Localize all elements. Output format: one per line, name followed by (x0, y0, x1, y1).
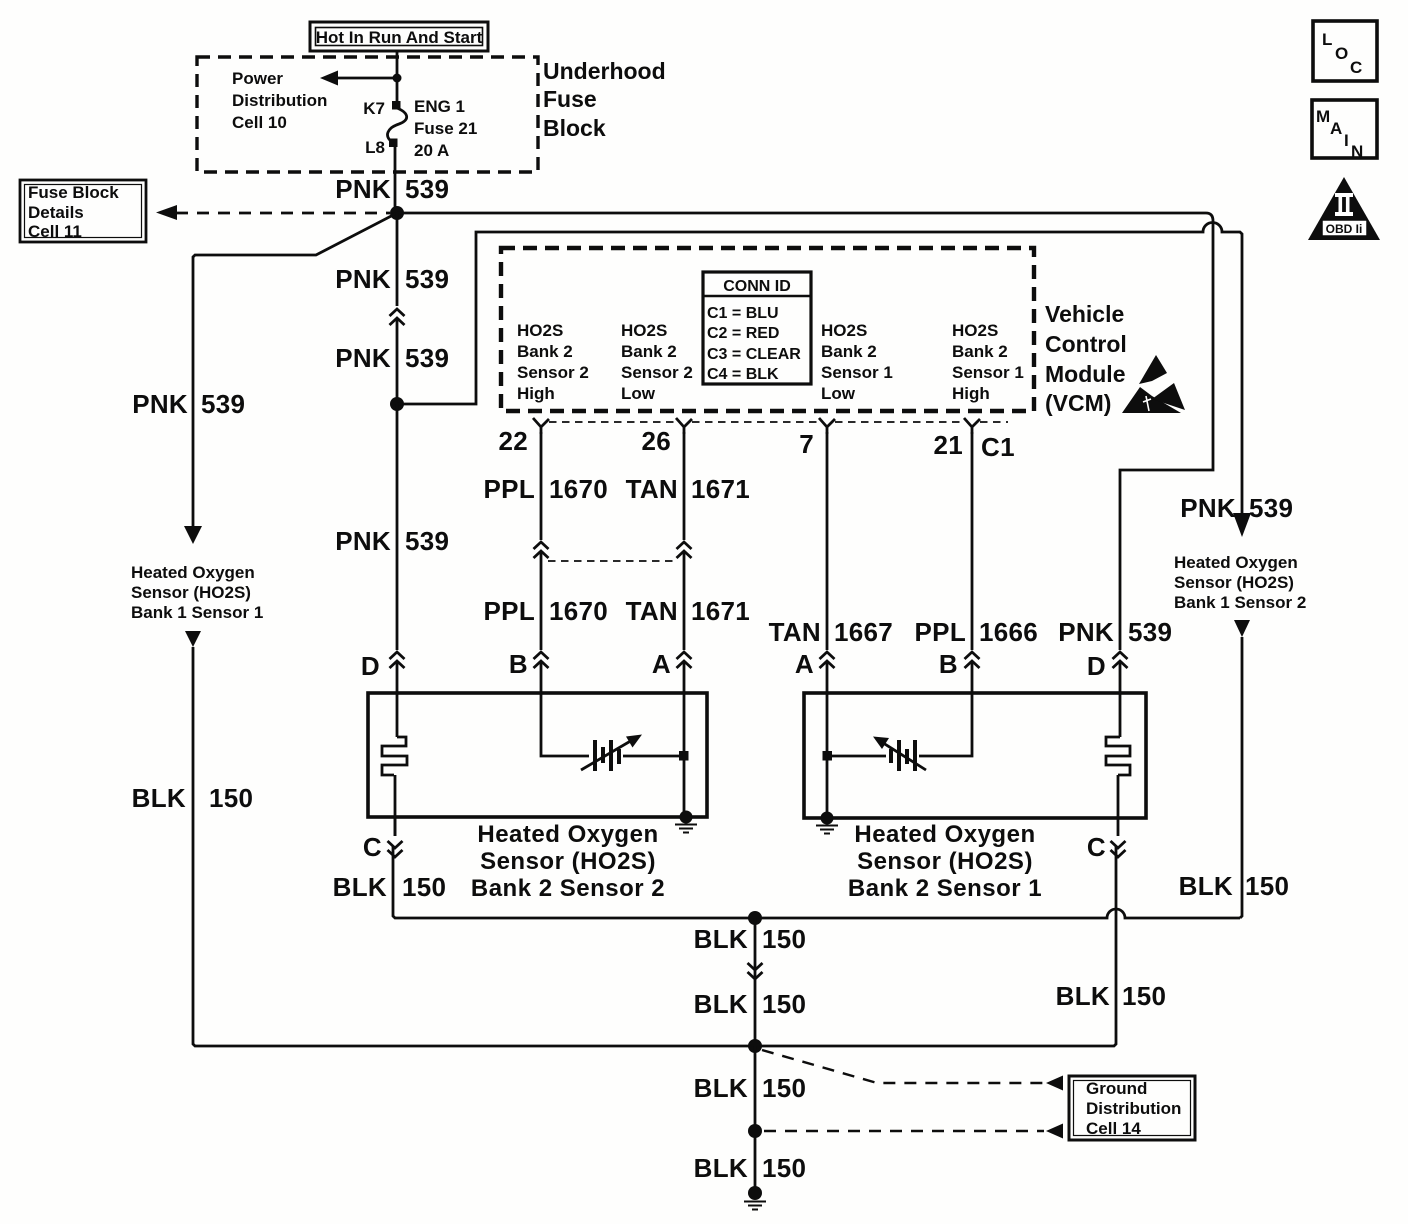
hot in run and start box (310, 22, 488, 51)
BLK 150 label right (1179, 871, 1290, 901)
power distribution cell 10 label (232, 69, 327, 132)
svg-text:Details: Details (28, 203, 84, 222)
svg-text:7: 7 (799, 429, 814, 459)
wire pin22 down (540, 432, 543, 540)
center ground wire with chevrons (754, 918, 757, 1046)
center wire to ground (754, 1046, 757, 1193)
wire from hot box into fuse block (396, 51, 399, 101)
main PNK wire continues down to sensor (396, 404, 399, 650)
svg-text:20 A: 20 A (414, 141, 449, 160)
fuse block details box (20, 180, 146, 242)
svg-text:HO2S: HO2S (821, 321, 867, 340)
left sensing element plates (595, 740, 619, 771)
svg-text:BLK: BLK (1056, 981, 1110, 1011)
svg-text:1670: 1670 (549, 596, 608, 626)
svg-text:26: 26 (641, 426, 671, 456)
left box caption (471, 821, 665, 902)
svg-text:Fuse Block: Fuse Block (28, 183, 119, 202)
svg-text:Low: Low (621, 384, 656, 403)
svg-text:BLK: BLK (132, 783, 186, 813)
svg-text:C: C (1087, 832, 1106, 862)
dashed ref diagonal to ground distribution (762, 1050, 1044, 1083)
svg-text:A: A (795, 649, 814, 679)
OBD II symbol (1308, 177, 1380, 240)
svg-text:Cell 14: Cell 14 (1086, 1119, 1141, 1138)
wire pin7 down (826, 432, 829, 650)
right heater element (1106, 693, 1130, 836)
wire pin21 down (971, 432, 974, 650)
svg-text:PPL: PPL (915, 617, 966, 647)
svg-text:PNK: PNK (335, 264, 391, 294)
svg-text:Sensor (HO2S): Sensor (HO2S) (480, 848, 656, 875)
wire: line B to VCM right side (397, 223, 1242, 515)
svg-text:M: M (1316, 107, 1330, 126)
main junction dot under fuse (390, 206, 404, 220)
svg-text:Bank 2 Sensor 1: Bank 2 Sensor 1 (848, 875, 1042, 902)
bottom ground symbol (744, 1186, 766, 1210)
fuse curve (388, 108, 407, 142)
svg-text:Underhood: Underhood (543, 58, 666, 84)
pin 22 Y connector (533, 418, 549, 434)
right sensing element wires (827, 693, 972, 756)
C wire down to bus with hop over right C wire (393, 846, 1240, 918)
svg-text:Bank 2: Bank 2 (517, 342, 573, 361)
junction for second dashed ref (748, 1124, 762, 1138)
svg-text:150: 150 (762, 924, 806, 954)
svg-text:PNK: PNK (1058, 617, 1114, 647)
svg-text:High: High (517, 384, 555, 403)
LOC symbol box (1313, 21, 1377, 81)
BLK 150 label under left sensor (333, 872, 447, 902)
HO2S bank2 sensor2 low label (621, 321, 693, 403)
left heater element (382, 693, 407, 836)
svg-text:Sensor 1: Sensor 1 (952, 363, 1024, 382)
A wire to ground in right box (826, 693, 829, 818)
right element junction square (823, 751, 833, 761)
svg-text:1671: 1671 (691, 474, 750, 504)
svg-text:C3 = CLEAR: C3 = CLEAR (707, 346, 801, 363)
svg-text:Heated Oxygen: Heated Oxygen (1174, 553, 1298, 572)
PNK 539 label (335, 264, 449, 294)
svg-text:150: 150 (762, 989, 806, 1019)
PNK539 arrowhead down right (1233, 513, 1251, 537)
right box ground (816, 812, 838, 834)
svg-text:BLK: BLK (1179, 871, 1233, 901)
svg-text:Cell 11: Cell 11 (28, 222, 82, 241)
wire: diagonal branch to left (193, 213, 397, 527)
svg-text:C1: C1 (981, 432, 1015, 462)
svg-text:539: 539 (405, 264, 449, 294)
svg-text:539: 539 (405, 526, 449, 556)
heated oxygen sensor bank1 sensor2 label (1174, 553, 1306, 612)
connector face fine dashed line (549, 421, 1008, 423)
TAN 1671 label (626, 474, 750, 504)
PPL 1670 label lower (484, 596, 609, 626)
svg-text:N: N (1351, 142, 1363, 161)
PNK 539 label (335, 174, 449, 204)
svg-text:1666: 1666 (979, 617, 1038, 647)
pin 7 Y connector (819, 418, 835, 434)
svg-text:Ground: Ground (1086, 1079, 1147, 1098)
svg-text:ENG 1: ENG 1 (414, 97, 465, 116)
svg-text:539: 539 (405, 174, 449, 204)
svg-text:Bank 2 Sensor 2: Bank 2 Sensor 2 (471, 875, 665, 902)
svg-text:D: D (361, 651, 380, 681)
svg-text:Power: Power (232, 69, 283, 88)
TAN 1667 label (769, 617, 893, 647)
svg-text:539: 539 (1128, 617, 1172, 647)
svg-text:Bank 2: Bank 2 (821, 342, 877, 361)
heated oxygen sensor bank1 sensor1 label (131, 563, 263, 622)
underhood fuse block label (543, 58, 666, 141)
svg-text:Sensor (HO2S): Sensor (HO2S) (1174, 573, 1294, 592)
left wire down to bottom bus (193, 647, 752, 1046)
fuse ENG1: K7 terminal (392, 101, 401, 110)
svg-text:Sensor 1: Sensor 1 (821, 363, 893, 382)
wire: line A top horizontal to right side (397, 213, 1213, 650)
svg-text:C1 = BLU: C1 = BLU (707, 305, 779, 322)
svg-text:BLK: BLK (694, 989, 748, 1019)
svg-text:Bank 2: Bank 2 (952, 342, 1008, 361)
svg-text:B: B (939, 649, 958, 679)
svg-text:HO2S: HO2S (621, 321, 667, 340)
TAN 1671 label lower (626, 596, 750, 626)
svg-text:HO2S: HO2S (952, 321, 998, 340)
svg-text:Heated Oxygen: Heated Oxygen (854, 821, 1035, 848)
svg-text:A: A (652, 649, 671, 679)
svg-text:BLK: BLK (333, 872, 387, 902)
sensor pin chevrons D B A (left box) (361, 651, 405, 693)
CONN ID table (703, 272, 811, 384)
left sensing element wires (541, 693, 684, 756)
svg-text:150: 150 (762, 1153, 806, 1183)
svg-text:I: I (1344, 131, 1349, 150)
right sensor box (804, 693, 1146, 818)
MAIN symbol box (1312, 100, 1377, 161)
dashed arrow to fuse block details (156, 205, 390, 220)
svg-text:PNK: PNK (335, 343, 391, 373)
PNK 539 label (335, 343, 449, 373)
arrowhead ground dist lower (1046, 1124, 1063, 1139)
svg-text:TAN: TAN (626, 596, 678, 626)
left element junction square (679, 751, 689, 761)
A wire to ground in left box (683, 693, 686, 817)
svg-text:1671: 1671 (691, 596, 750, 626)
junction lower bus (748, 1039, 762, 1053)
wire22 lower (540, 552, 543, 650)
svg-text:Fuse: Fuse (543, 86, 597, 112)
svg-text:TAN: TAN (626, 474, 678, 504)
pin 26 Y connector (676, 418, 692, 434)
svg-text:TAN: TAN (769, 617, 821, 647)
svg-text:B: B (509, 649, 528, 679)
inline connector chevrons wire26 (677, 542, 692, 558)
BLK 150 below lower junction (694, 1073, 807, 1103)
arrowhead ground dist upper (1046, 1076, 1063, 1091)
svg-text:L8: L8 (365, 138, 385, 157)
right sensor C pin (1087, 832, 1126, 862)
svg-text:PPL: PPL (484, 596, 535, 626)
svg-text:(VCM): (VCM) (1045, 390, 1111, 416)
svg-text:High: High (952, 384, 990, 403)
svg-text:Distribution: Distribution (232, 91, 327, 110)
svg-text:Heated Oxygen: Heated Oxygen (477, 821, 658, 848)
arrow to power distribution (320, 71, 402, 86)
svg-text:L: L (1322, 30, 1332, 49)
svg-text:C2 = RED: C2 = RED (707, 325, 779, 342)
PNK 539 label right sensor D (1058, 617, 1172, 647)
svg-text:PNK: PNK (132, 389, 188, 419)
vehicle control module label (1045, 301, 1127, 416)
svg-text:HO2S: HO2S (517, 321, 563, 340)
left box ground (675, 811, 697, 833)
HO2S bank2 sensor1 high label (952, 321, 1024, 403)
svg-text:PNK: PNK (335, 174, 391, 204)
svg-text:Fuse 21: Fuse 21 (414, 119, 477, 138)
svg-text:Sensor 2: Sensor 2 (517, 363, 589, 382)
small arrowhead resume right wire (1234, 620, 1250, 637)
svg-text:BLK: BLK (694, 1153, 748, 1183)
BLK 150 bottom (694, 1153, 807, 1183)
svg-text:Sensor (HO2S): Sensor (HO2S) (857, 848, 1033, 875)
HO2S bank2 sensor1 low label (821, 321, 893, 403)
svg-text:PNK: PNK (1180, 493, 1236, 523)
svg-text:Cell 10: Cell 10 (232, 113, 287, 132)
arrow head left wire (184, 526, 202, 544)
HO2S bank2 sensor2 high label (517, 321, 589, 403)
svg-text:D: D (1087, 651, 1106, 681)
svg-text:Vehicle: Vehicle (1045, 301, 1124, 327)
BLK 150 label center top (694, 924, 807, 954)
svg-text:BLK: BLK (694, 924, 748, 954)
svg-text:O: O (1335, 44, 1348, 63)
splice chevron up (390, 309, 405, 325)
PNK 539 label right (1180, 493, 1293, 523)
BLK 150 label left (132, 783, 254, 813)
inline connector dashed line (548, 560, 677, 562)
svg-text:Heated Oxygen: Heated Oxygen (131, 563, 255, 582)
BLK 150 label center mid (694, 989, 807, 1019)
right wire down to bottom bus corner (1240, 637, 1242, 918)
ground distribution box (1069, 1076, 1195, 1140)
svg-text:Block: Block (543, 115, 606, 141)
svg-text:Sensor 2: Sensor 2 (621, 363, 693, 382)
svg-text:OBD Ii: OBD Ii (1326, 222, 1363, 236)
svg-text:1670: 1670 (549, 474, 608, 504)
svg-text:Module: Module (1045, 361, 1126, 387)
main PNK wire down (396, 213, 399, 306)
ESD symbol triangles (1122, 355, 1185, 413)
svg-text:150: 150 (1245, 871, 1289, 901)
svg-text:539: 539 (201, 389, 245, 419)
L8 terminal (389, 139, 398, 148)
svg-text:Bank 1 Sensor 2: Bank 1 Sensor 2 (1174, 593, 1306, 612)
svg-text:Bank 2: Bank 2 (621, 342, 677, 361)
left sensor C pin (363, 817, 403, 862)
left sensor box (368, 693, 707, 817)
PNK 539 label (335, 526, 449, 556)
svg-text:22: 22 (498, 426, 528, 456)
svg-text:Bank 1 Sensor 1: Bank 1 Sensor 1 (131, 603, 263, 622)
svg-text:Sensor (HO2S): Sensor (HO2S) (131, 583, 251, 602)
svg-text:PPL: PPL (484, 474, 535, 504)
svg-text:150: 150 (209, 783, 253, 813)
BLK 150 label right C wire (1056, 981, 1167, 1011)
right sensing element plates (891, 740, 915, 771)
PPL 1670 label (484, 474, 609, 504)
junction upper bus (748, 911, 762, 925)
dashed ref second line (764, 1130, 1044, 1132)
svg-text:Control: Control (1045, 331, 1127, 357)
svg-text:150: 150 (762, 1073, 806, 1103)
svg-text:150: 150 (402, 872, 446, 902)
svg-text:PNK: PNK (335, 526, 391, 556)
wire26 lower (683, 552, 686, 650)
svg-text:Distribution: Distribution (1086, 1099, 1181, 1118)
svg-text:21: 21 (933, 430, 963, 460)
svg-text:BLK: BLK (694, 1073, 748, 1103)
ENG 1 Fuse 21 20 A labels (414, 97, 477, 160)
VCM dashed box (501, 248, 1034, 411)
svg-text:150: 150 (1122, 981, 1166, 1011)
underhood fuse block dashed box (197, 57, 538, 172)
svg-text:539: 539 (405, 343, 449, 373)
svg-text:CONN ID: CONN ID (723, 278, 791, 295)
junction dot mid (390, 397, 404, 411)
svg-text:Low: Low (821, 384, 856, 403)
wire fuse to main junction (394, 147, 397, 213)
inline connector chevrons wire22 (534, 542, 549, 558)
svg-text:K7: K7 (363, 99, 385, 118)
pin 21 C1 Y connector (964, 418, 980, 434)
svg-text:Hot In Run And Start: Hot In Run And Start (316, 28, 483, 47)
svg-text:C: C (363, 832, 382, 862)
svg-text:C4 = BLK: C4 = BLK (707, 366, 779, 383)
right element arrow (873, 737, 926, 771)
arrow head resume left wire (185, 631, 201, 647)
PPL 1666 label (915, 617, 1039, 647)
svg-text:539: 539 (1249, 493, 1293, 523)
right C wire down across bus to lower bus (755, 846, 1116, 1046)
svg-text:A: A (1330, 119, 1342, 138)
sensor pin chevrons A B D (right box) (795, 649, 835, 693)
svg-text:C: C (1350, 58, 1362, 77)
PNK 539 label left (132, 389, 245, 419)
right box caption (848, 821, 1042, 902)
svg-text:1667: 1667 (834, 617, 893, 647)
wire pin26 down (683, 432, 686, 540)
left element arrow (581, 735, 642, 771)
